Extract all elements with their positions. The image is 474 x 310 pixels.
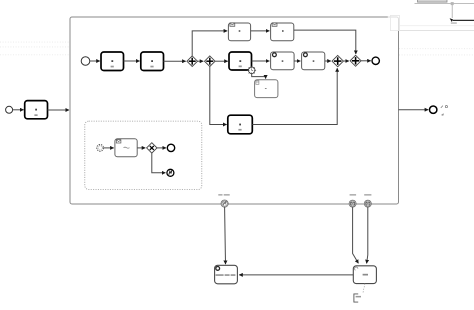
task M4 bbox=[255, 80, 278, 98]
task M3 (service) bbox=[302, 52, 325, 70]
flow BR -> BL bbox=[239, 274, 353, 276]
top task T1 bbox=[228, 23, 250, 41]
flow outer start -> outer task bbox=[13, 109, 24, 111]
flow M3 -> gatewayA bbox=[325, 60, 331, 62]
flow BE3 -> box BR bbox=[367, 207, 368, 263]
task1 (bold) bbox=[101, 52, 124, 71]
bottom branch: gateway2 -> taskB -> gatewayA bbox=[210, 67, 227, 125]
box BR bbox=[353, 266, 376, 284]
start event (pool) bbox=[81, 57, 90, 66]
flow T1 -> T2 bbox=[251, 30, 270, 32]
flow E1 -> gatewayX bbox=[137, 147, 145, 149]
end event 2 error bbox=[167, 169, 174, 176]
flow gateway1 -> gateway2 bbox=[198, 60, 204, 62]
inner end event bbox=[372, 57, 379, 64]
event sub-process start (non-interrupting, dashed) bbox=[97, 145, 104, 152]
flow task1 -> task2 bbox=[124, 60, 140, 62]
flow boundary -> M4 bbox=[252, 74, 266, 79]
task M2 (service) bbox=[271, 52, 295, 70]
flow BE1 -> box BL bbox=[224, 207, 227, 264]
text annotation bbox=[354, 294, 358, 302]
flow M2 -> M3 bbox=[294, 60, 300, 62]
flow taskB -> gatewayA (up into bottom) bbox=[252, 68, 337, 124]
boundary event BE2 (message) bbox=[349, 194, 356, 207]
boundary event BE1 (error) bbox=[218, 194, 229, 207]
flow gatewayA -> gatewayB bbox=[343, 60, 349, 62]
top task T2 bbox=[271, 23, 294, 41]
end event 1 (sub-process) bbox=[167, 144, 174, 151]
flow gatewayX -> end2 bbox=[152, 153, 166, 173]
timer boundary event on M1 bbox=[247, 66, 256, 75]
flow gateway2 -> M1 bbox=[215, 60, 228, 62]
flow gatewayX -> end1 bbox=[157, 147, 166, 149]
task E1 bbox=[115, 139, 137, 157]
flow outer task -> pool bbox=[48, 109, 70, 111]
flow T2 -> gatewayB (down into top) bbox=[294, 30, 356, 54]
outer task (bold) bbox=[25, 101, 48, 119]
task B (bold) bbox=[228, 115, 253, 134]
flow gatewayB -> inner end bbox=[361, 60, 371, 62]
fade of pool border at top-right bbox=[388, 14, 400, 31]
box BL (service task) bbox=[215, 265, 238, 284]
flow task2 -> gateway1 bbox=[164, 60, 186, 62]
task2 (bold) bbox=[141, 52, 164, 71]
flow start -> task1 bbox=[90, 60, 100, 62]
start event (outer) bbox=[6, 106, 13, 113]
flow start -> E1 bbox=[104, 147, 114, 149]
annotation link (dotted) bbox=[363, 284, 365, 294]
outer end event bbox=[430, 106, 437, 113]
gatewayA parallel bbox=[332, 55, 343, 66]
label marks of end event bbox=[441, 106, 448, 116]
top-right collapsed pool fragment bbox=[415, 0, 474, 24]
gatewayB parallel bbox=[350, 55, 361, 66]
boundary event BE3 (message) bbox=[364, 194, 371, 207]
flow gateway1 -> top task T1 bbox=[192, 31, 227, 56]
gateway2 parallel bbox=[205, 56, 216, 67]
faint box over pool top-right corner bbox=[390, 15, 474, 30]
flow BE2 -> box BR bbox=[353, 207, 359, 263]
faint dotted guide band left/right margins bbox=[0, 42, 474, 55]
gatewayX exclusive bbox=[147, 143, 157, 153]
gateway1 parallel bbox=[187, 56, 198, 67]
pool (expanded sub-process) bbox=[70, 17, 399, 204]
task M1 (bold) bbox=[229, 52, 252, 70]
flow M1 -> M2 bbox=[252, 60, 270, 62]
